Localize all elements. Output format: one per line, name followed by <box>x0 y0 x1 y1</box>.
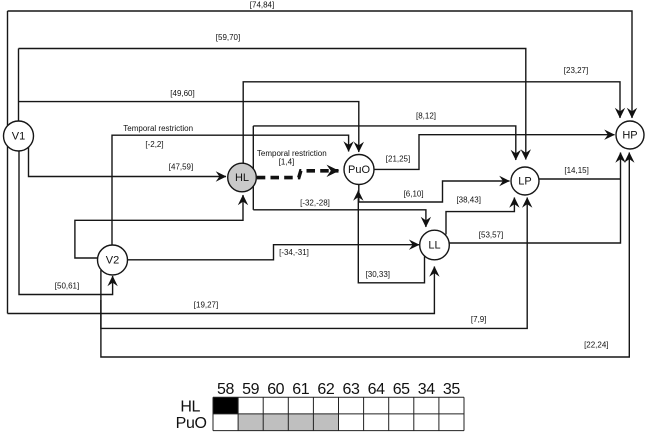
svg-text:59: 59 <box>242 381 259 398</box>
svg-text:58: 58 <box>217 381 234 398</box>
svg-text:V2: V2 <box>106 255 119 267</box>
svg-text:[6,10]: [6,10] <box>404 189 424 198</box>
svg-text:63: 63 <box>343 381 360 398</box>
svg-text:[14,15]: [14,15] <box>564 166 588 175</box>
svg-text:[38,43]: [38,43] <box>456 196 480 205</box>
svg-text:[-32,-28]: [-32,-28] <box>300 198 330 207</box>
svg-text:34: 34 <box>418 381 435 398</box>
svg-text:HP: HP <box>622 130 637 142</box>
svg-text:[53,57]: [53,57] <box>479 231 503 240</box>
svg-text:[7,9]: [7,9] <box>471 315 487 324</box>
svg-text:64: 64 <box>368 381 385 398</box>
svg-text:60: 60 <box>267 381 284 398</box>
svg-text:61: 61 <box>292 381 309 398</box>
svg-text:HL: HL <box>235 172 249 184</box>
svg-text:[-34,-31]: [-34,-31] <box>279 248 309 257</box>
svg-text:[30,33]: [30,33] <box>366 270 390 279</box>
svg-text:[59,70]: [59,70] <box>216 33 240 42</box>
svg-text:[74,84]: [74,84] <box>250 1 274 10</box>
svg-text:[23,27]: [23,27] <box>564 66 588 75</box>
svg-text:[8,12]: [8,12] <box>416 112 436 121</box>
svg-text:PuO: PuO <box>348 164 370 176</box>
svg-text:[1,4]: [1,4] <box>279 157 295 166</box>
svg-text:V1: V1 <box>12 131 25 143</box>
svg-text:[-2,2]: [-2,2] <box>145 140 163 149</box>
svg-text:[49,60]: [49,60] <box>170 89 194 98</box>
svg-text:65: 65 <box>393 381 410 398</box>
svg-text:[22,24]: [22,24] <box>584 341 608 350</box>
svg-text:LL: LL <box>428 240 440 252</box>
svg-text:62: 62 <box>317 381 334 398</box>
svg-text:[19,27]: [19,27] <box>194 300 218 309</box>
svg-text:LP: LP <box>518 176 531 188</box>
svg-text:PuO: PuO <box>176 415 207 432</box>
svg-text:[50,61]: [50,61] <box>55 282 79 291</box>
svg-text:35: 35 <box>443 381 460 398</box>
svg-text:Temporal restriction: Temporal restriction <box>123 124 193 133</box>
svg-text:[21,25]: [21,25] <box>386 155 410 164</box>
svg-text:HL: HL <box>180 399 200 416</box>
svg-text:[47,59]: [47,59] <box>169 162 193 171</box>
